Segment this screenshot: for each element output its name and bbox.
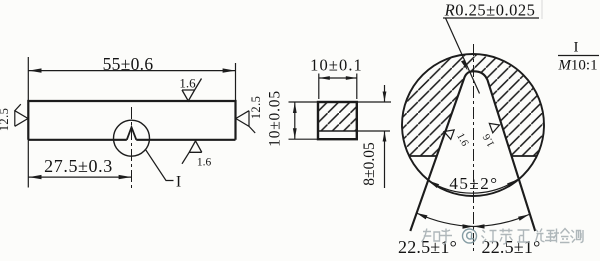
square outline <box>318 102 357 139</box>
svg-text:45±2°: 45±2° <box>449 174 498 193</box>
notch root line in section <box>318 130 357 132</box>
watermark glyph 乎 <box>440 229 452 245</box>
dimension 10±0.1 line <box>319 77 357 79</box>
svg-text:10±0.1: 10±0.1 <box>310 56 363 75</box>
svg-text:22.5±1°: 22.5±1° <box>482 237 541 257</box>
svg-text:1.6: 1.6 <box>197 157 212 169</box>
svg-text:I: I <box>574 40 579 56</box>
watermark glyph 知 <box>422 229 440 243</box>
detail circle around notch <box>114 120 150 156</box>
dimension 8±0.05 line and arrows <box>384 85 386 102</box>
specimen bottom surface lines <box>409 155 437 157</box>
wire: left extension line <box>27 57 29 188</box>
stray faint line top right <box>541 0 543 19</box>
angle arc 22.5° left <box>417 213 474 227</box>
extension lines for 8±0.05 <box>357 101 391 103</box>
extension lines for 10±0.05 <box>289 101 319 103</box>
roughness 1.6 on left notch face <box>442 127 454 139</box>
roughness symbol 12.5 left <box>15 104 28 126</box>
watermark glyph @ <box>463 229 477 243</box>
dimension 27.5±0.3 line <box>28 176 131 178</box>
watermark glyph 江 <box>482 230 497 243</box>
watermark glyph 测 <box>571 230 584 243</box>
centerline of notch <box>131 107 133 190</box>
notch V (front view) <box>127 127 137 140</box>
svg-text:55±0.6: 55±0.6 <box>103 54 154 74</box>
dimension 55±0.6 line <box>28 70 235 72</box>
wire: right extension line above bar <box>235 63 237 101</box>
svg-text:1.6: 1.6 <box>179 76 196 91</box>
svg-text:1.6: 1.6 <box>481 132 497 149</box>
angle arc 45° <box>428 180 517 194</box>
svg-text:8±0.05: 8±0.05 <box>361 142 378 186</box>
watermark glyph 检 <box>554 229 570 243</box>
roughness symbol 12.5 right <box>236 111 255 133</box>
radius leader R0.25±0.025 <box>443 17 539 19</box>
svg-text:10±0.05: 10±0.05 <box>267 90 284 147</box>
roughness 1.6 on right notch face <box>489 120 501 132</box>
svg-text:I: I <box>176 174 181 191</box>
svg-text:R0.25±0.025: R0.25±0.025 <box>444 1 536 20</box>
extension lines for 10±0.1 <box>318 74 320 100</box>
hatched area of section <box>318 102 357 131</box>
svg-text:22.5±1°: 22.5±1° <box>398 237 457 257</box>
watermark glyph 苏 <box>500 229 513 245</box>
svg-text:12.5: 12.5 <box>249 96 263 119</box>
svg-text:12.5: 12.5 <box>0 108 11 131</box>
notch flanks (V legs) and rounded tip <box>410 71 535 231</box>
hatched area inside detail circle <box>400 52 547 156</box>
svg-text:M10:1: M10:1 <box>557 58 597 74</box>
roughness symbol 1.6 bottom <box>182 141 202 164</box>
bar outline <box>28 101 235 140</box>
leader to detail label I <box>146 150 174 181</box>
watermark glyph 辉 <box>536 229 557 243</box>
detail boundary circle <box>402 54 544 196</box>
detail centerline <box>473 44 475 252</box>
dimension 10±0.05 line <box>294 102 296 139</box>
svg-text:27.5±0.3: 27.5±0.3 <box>44 156 113 176</box>
roughness symbol 1.6 top <box>182 79 202 102</box>
angle arc 22.5° right <box>474 215 530 227</box>
watermark glyph 正 <box>517 230 530 242</box>
svg-text:1.6: 1.6 <box>454 131 470 148</box>
